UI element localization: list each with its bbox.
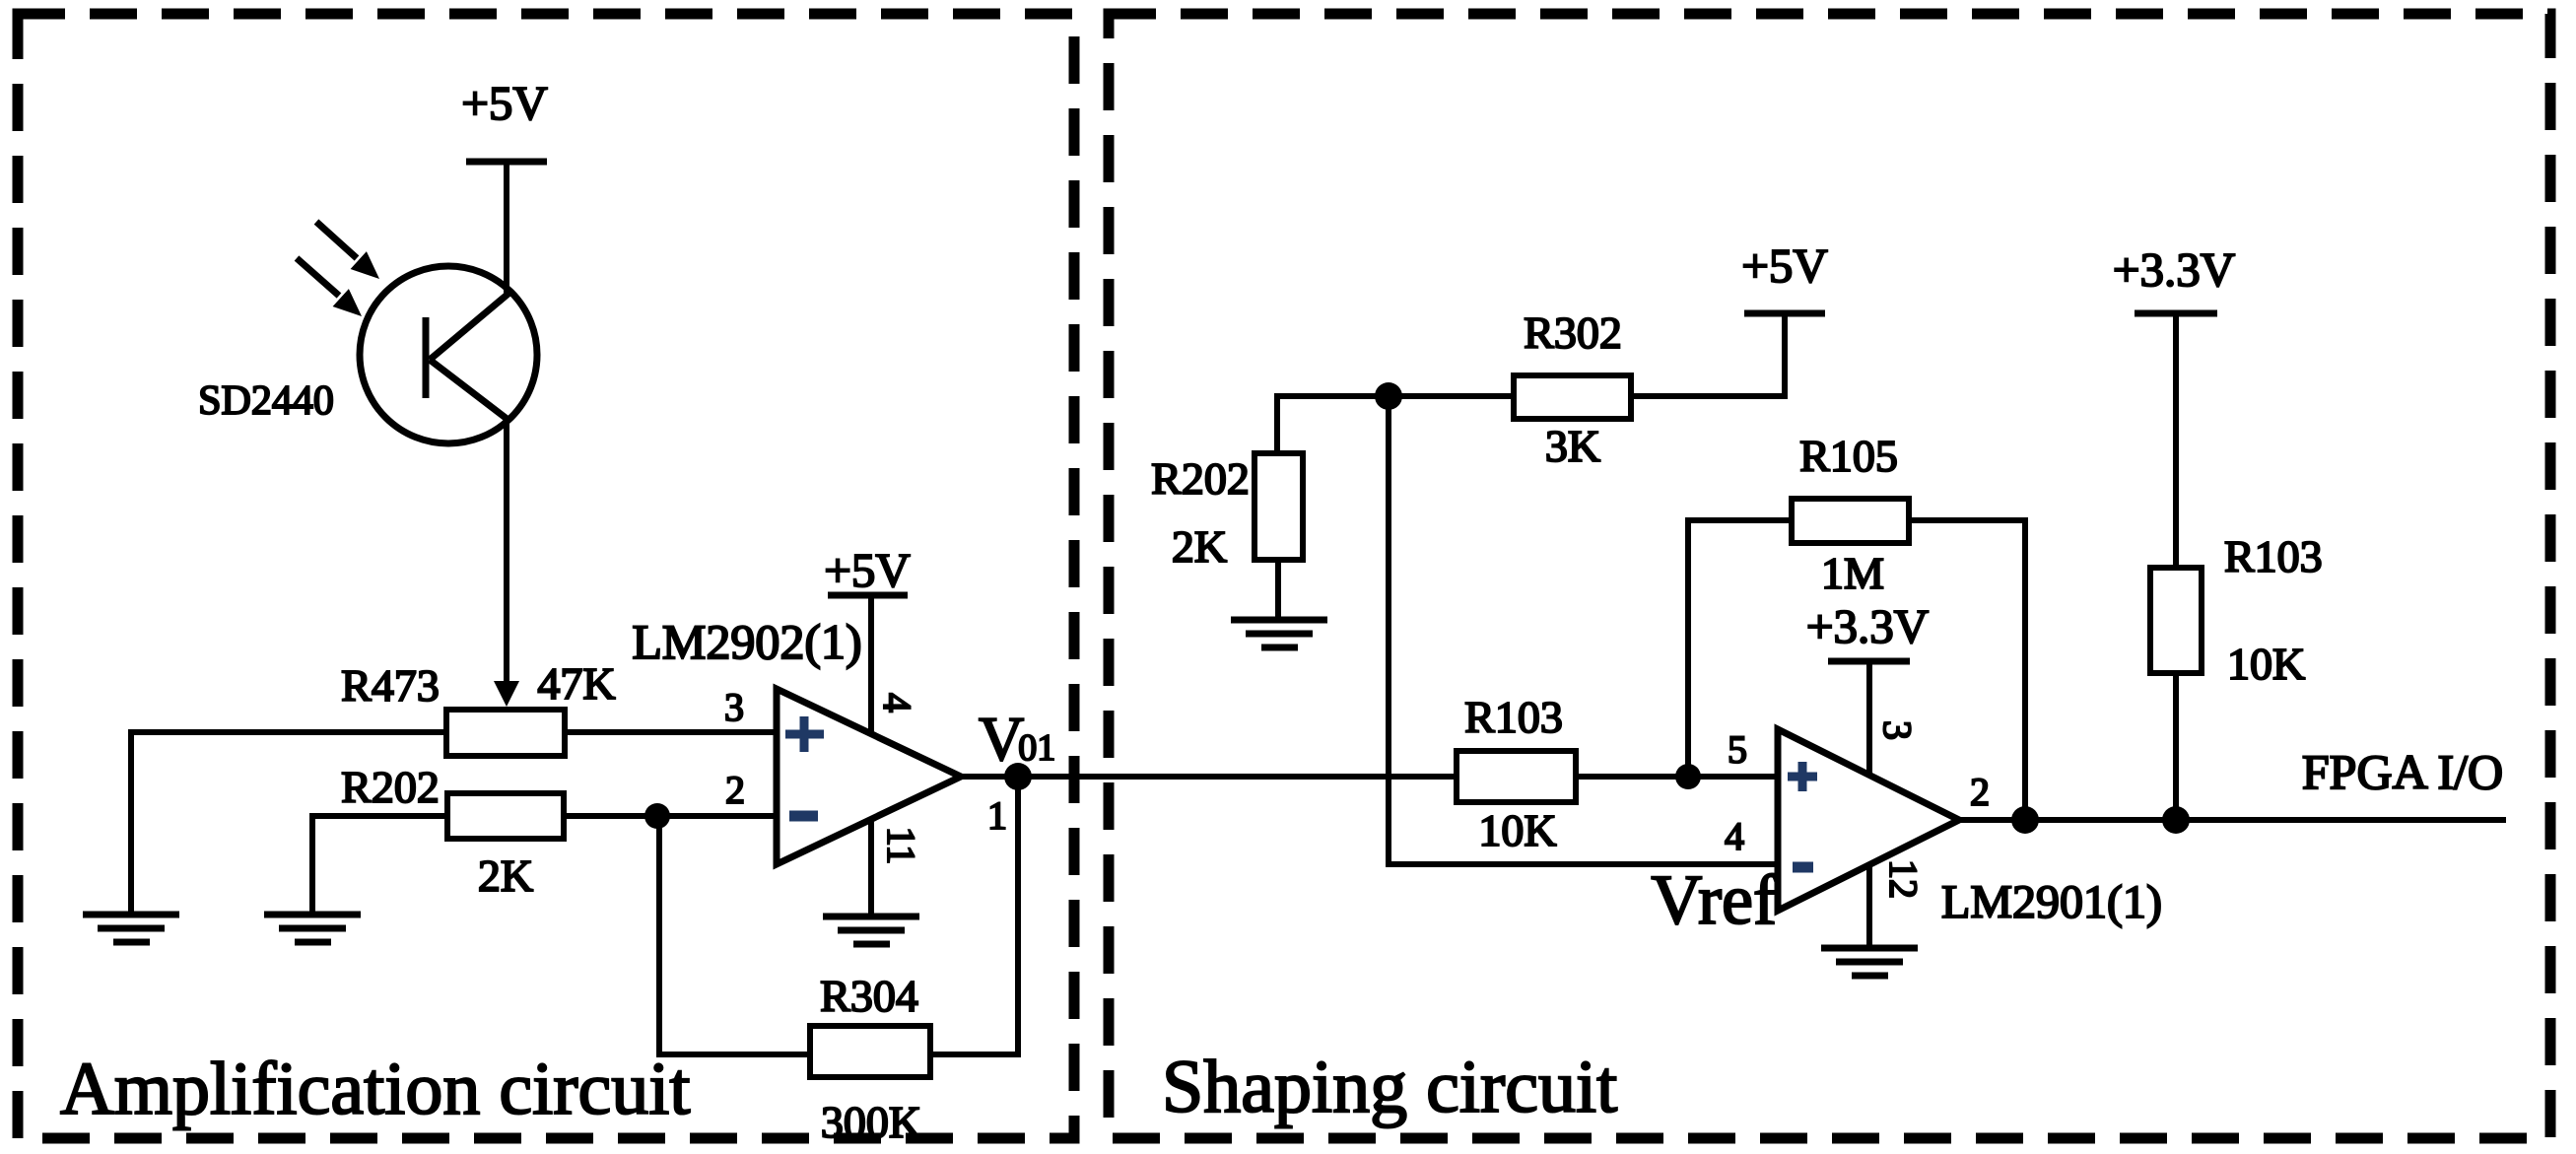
svg-text:R302: R302 — [1524, 307, 1622, 358]
dashed border: Amplification circuit box — [18, 14, 1074, 1138]
svg-text:3: 3 — [724, 685, 744, 729]
resistor R202 (2K) — [341, 762, 564, 901]
svg-text:5: 5 — [1728, 727, 1747, 772]
resistor R302 (3K) — [1514, 307, 1631, 471]
ground wire (op-amp pin 11) — [868, 821, 874, 916]
ground (comparator) — [1821, 948, 1918, 976]
svg-text:R304: R304 — [820, 971, 918, 1021]
svg-text:10K: 10K — [1478, 805, 1556, 855]
svg-text:+5V: +5V — [461, 76, 548, 130]
light arrow 2 — [297, 258, 362, 316]
resistor R103 vertical (10K pull-up) — [2150, 531, 2323, 689]
ground (op-amp) — [823, 916, 919, 944]
svg-text:FPGA I/O: FPGA I/O — [2302, 744, 2503, 799]
svg-text:R202: R202 — [1151, 453, 1250, 504]
svg-text:SD2440: SD2440 — [198, 378, 334, 424]
+5V supply (R302) — [1741, 238, 1828, 313]
wire: node A horizontal (R202v to R302) — [1277, 393, 1514, 399]
svg-text:+5V: +5V — [1741, 238, 1828, 293]
svg-text:LM2902(1): LM2902(1) — [632, 614, 861, 669]
wire: R302 to +5V — [1631, 313, 1785, 396]
resistor R103 horizontal (10K) — [1457, 692, 1576, 855]
svg-text:2K: 2K — [478, 850, 533, 901]
wire: R103 to pin 5 — [1576, 774, 1778, 780]
wire: R473 to op-amp pin 3 — [565, 729, 777, 735]
svg-text:10K: 10K — [2227, 639, 2305, 689]
junction node (pin 5) — [1675, 764, 1701, 789]
svg-text:1M: 1M — [1821, 548, 1884, 598]
wire: R202 left to ground — [312, 816, 447, 915]
wire: R103 to output net — [2173, 673, 2179, 820]
svg-text:R103: R103 — [1464, 692, 1563, 742]
svg-text:47K: 47K — [537, 658, 615, 709]
potentiometer R473 (47K) — [341, 658, 615, 756]
wire: R473 left to ground — [131, 732, 446, 915]
wire: R202 to op-amp pin 2 — [564, 813, 777, 819]
ground (R202v) — [1231, 620, 1327, 647]
svg-text:Amplification circuit: Amplification circuit — [60, 1048, 690, 1130]
feedback wire: R304 to inverting node — [659, 816, 810, 1054]
+3.3V supply (pull-up R103) — [2113, 242, 2235, 568]
svg-text:300K: 300K — [821, 1097, 921, 1147]
svg-text:R105: R105 — [1799, 431, 1898, 481]
svg-text:LM2901(1): LM2901(1) — [1941, 876, 2162, 928]
svg-text:1: 1 — [987, 793, 1007, 838]
svg-text:2: 2 — [725, 768, 745, 812]
svg-text:+3.3V: +3.3V — [1806, 599, 1929, 653]
svg-text:+3.3V: +3.3V — [2113, 242, 2235, 297]
svg-text:4: 4 — [1725, 814, 1744, 858]
Vref wire: node A down to comparator pin 4 — [1389, 396, 1778, 864]
light arrow 1 — [316, 222, 379, 279]
svg-text:11: 11 — [879, 827, 923, 865]
svg-text:2: 2 — [1970, 770, 1990, 814]
svg-text:+5V: +5V — [824, 543, 911, 597]
phototransistor SD2440 — [360, 266, 537, 443]
svg-text:3K: 3K — [1545, 421, 1600, 471]
ground wire (comparator pin 12) — [1866, 865, 1872, 948]
op-amp U1 LM2902(1) — [632, 614, 961, 864]
wire: emitter down to R473 wiper (arrow) — [494, 418, 519, 707]
svg-text:R202: R202 — [341, 762, 440, 812]
svg-text:4: 4 — [875, 693, 919, 713]
resistor R304 (300K) — [810, 971, 930, 1147]
wire: corner down to R202 vertical — [1274, 393, 1280, 453]
+5V supply (op-amp pin 4) — [824, 543, 911, 731]
resistor R202 vertical (2K) — [1151, 453, 1303, 572]
+3.3V supply (comparator pin 3) — [1806, 599, 1929, 776]
wire: R202v to ground — [1275, 560, 1281, 620]
node A junction — [1375, 382, 1402, 410]
output net: comparator to FPGA I/O — [1959, 817, 2506, 823]
svg-text:R473: R473 — [341, 660, 440, 711]
svg-text:Vref: Vref — [1651, 860, 1777, 939]
svg-text:12: 12 — [1881, 859, 1926, 899]
feedback wire: output down to R304 — [932, 777, 1018, 1054]
svg-text:2K: 2K — [1172, 521, 1227, 572]
junction node (inverting input) — [644, 803, 670, 829]
comparator U2 LM2901(1) — [1778, 729, 2162, 928]
ground (left of R202) — [264, 915, 361, 942]
svg-text:3: 3 — [1875, 720, 1920, 740]
dashed border: Shaping circuit box — [1109, 14, 2550, 1138]
node V01: output wire to R103 — [961, 774, 1457, 780]
svg-text:Shaping circuit: Shaping circuit — [1162, 1046, 1617, 1128]
ground (left of R473) — [83, 915, 179, 942]
svg-text:R103: R103 — [2224, 531, 2323, 581]
feedback wire: pin5 node up to R105 — [1688, 520, 1792, 777]
feedback wire: R105 to output node — [1909, 520, 2025, 820]
resistor R105 (1M) — [1792, 431, 1909, 598]
+5V supply (phototransistor collector) — [461, 76, 548, 295]
